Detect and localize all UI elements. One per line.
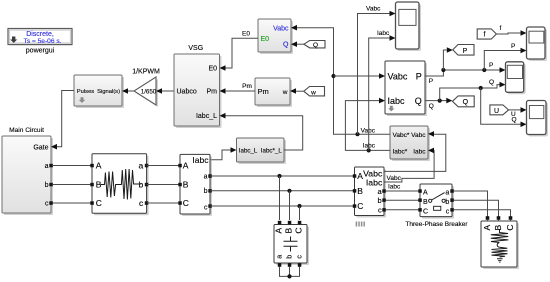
wire breaker b to load B (454, 200, 499, 217)
breaker switch icon (429, 199, 432, 202)
svg-text:Iabc: Iabc (377, 30, 390, 37)
svg-text:A: A (482, 224, 492, 230)
Iabc_L input arrow (231, 147, 237, 153)
svg-text:P: P (463, 48, 468, 55)
svg-text:Pm: Pm (242, 83, 252, 90)
svg-text:Q: Q (463, 99, 469, 106)
gain input arrow (156, 88, 162, 94)
junction Q at scope3 branch (479, 86, 483, 90)
svg-text:b: b (138, 180, 143, 190)
svg-text:f: f (500, 25, 502, 32)
wire meas2 b to breaker B (386, 199, 420, 201)
svg-text:Pm: Pm (258, 87, 269, 96)
scope1 P input arrow (521, 48, 527, 54)
svg-text:1/650: 1/650 (141, 88, 157, 95)
svg-text:C: C (294, 228, 304, 234)
wire E0 output to VSG E0 (226, 38, 259, 68)
svg-text:a: a (138, 161, 143, 171)
svg-text:c: c (139, 198, 144, 208)
svg-text:B: B (183, 180, 189, 190)
cap bottom terminal squares (278, 263, 282, 267)
svg-text:f: f (484, 32, 486, 39)
load inductor icon (497, 243, 499, 248)
junction phase c cap tap (297, 204, 301, 208)
svg-text:c: c (204, 205, 208, 212)
per-unit conversion block (390, 126, 430, 161)
junction Q (438, 99, 442, 103)
cap top terminal squares (278, 221, 282, 225)
svg-text:b: b (45, 182, 49, 189)
svg-text:C: C (505, 225, 515, 231)
svg-text:c: c (297, 255, 304, 259)
breaker port squares right (450, 189, 454, 193)
wire phase b bus (210, 190, 355, 192)
wire meas2 Iabc up to pu block (384, 150, 434, 182)
svg-text:Q: Q (429, 103, 434, 110)
wire meas2 a to breaker A (386, 190, 420, 192)
meas2 port squares left (353, 174, 357, 178)
wire main c to fault C (53, 202, 92, 204)
junction cap neutral (287, 274, 291, 278)
svg-text:C: C (357, 201, 363, 211)
svg-text:Gate: Gate (33, 145, 48, 152)
From tag w (304, 87, 325, 97)
svg-text:E0: E0 (261, 36, 270, 43)
svg-text:C: C (96, 198, 102, 208)
svg-text:Q: Q (512, 116, 517, 123)
port c square (49, 201, 53, 205)
svg-text:P: P (511, 43, 515, 50)
junction Iabc* at scope branch (367, 148, 371, 152)
scope3 Q input arrow (521, 122, 527, 128)
wire meas1 Iabc to Iabc_L (210, 150, 231, 160)
scope1 f input arrow (521, 30, 527, 36)
svg-text:A: A (423, 189, 428, 196)
svg-text:c: c (446, 208, 450, 215)
powergui block (8, 29, 73, 46)
E0 block Q input arrow (291, 41, 297, 47)
svg-text:C: C (423, 208, 428, 215)
wire phase a bus meas1 to meas2 (210, 175, 355, 177)
svg-text:VSG: VSG (188, 45, 203, 52)
VSG E0 input arrow (220, 65, 226, 71)
wire gain to Signal(s) (128, 90, 134, 92)
wire fault a to meas1 A (147, 165, 180, 167)
junction phase a cap tap (277, 174, 281, 178)
svg-text:Iabc: Iabc (363, 142, 376, 149)
svg-text:Ts = 5e-06 s.: Ts = 5e-06 s. (24, 38, 62, 45)
wire P branch to goto tag (443, 50, 446, 70)
svg-text:Q: Q (415, 96, 422, 106)
svg-text:b: b (378, 196, 382, 205)
svg-text:b: b (287, 255, 294, 259)
wire main a to fault A (53, 165, 92, 167)
pu block Iabc input arrow (428, 148, 434, 154)
VSG Pm input arrow (220, 88, 226, 94)
power block Vabc input arrow (379, 73, 385, 79)
svg-text:Iabc: Iabc (413, 148, 426, 155)
wire meas2 c to breaker C (386, 209, 420, 211)
From tag f (477, 29, 496, 39)
svg-text:Q: Q (489, 79, 494, 86)
Goto tag Q (452, 96, 474, 107)
Main Circuit block (2, 136, 53, 215)
load ground (497, 259, 503, 262)
svg-text:P: P (416, 71, 422, 81)
meas1 port squares left (178, 164, 182, 168)
load terminal squares (486, 216, 490, 220)
svg-text:a: a (445, 189, 449, 196)
svg-text:Vabc: Vabc (366, 6, 381, 13)
current measurement block meas1 (180, 154, 212, 216)
From tag U (490, 105, 509, 115)
svg-text:a: a (204, 174, 208, 181)
wire Iabc* branch to top scope (369, 38, 390, 150)
pu block Vabc input arrow (428, 131, 434, 137)
port Gate input arrow (51, 144, 57, 150)
svg-text:b: b (445, 199, 449, 206)
E0 block Vabc input arrow (291, 25, 297, 31)
scope1 (f,P) (527, 27, 548, 61)
wire cap neutral (280, 267, 300, 277)
fault waveform icon (101, 169, 142, 200)
fault port squares right (145, 164, 149, 168)
svg-text:P: P (429, 78, 433, 85)
junction P goto branch (441, 68, 445, 72)
svg-text:U: U (494, 108, 499, 115)
svg-text:w: w (310, 89, 316, 96)
Pm block (255, 78, 292, 107)
svg-text:Pm: Pm (207, 89, 218, 96)
wire breaker a to load A (454, 191, 488, 217)
port Signal(s) input arrow (122, 88, 128, 94)
svg-text:b: b (204, 188, 208, 195)
Goto tag P (453, 45, 474, 56)
wire P branch to scope1 (484, 51, 520, 71)
svg-text:B: B (493, 224, 503, 230)
svg-text:E0: E0 (242, 31, 250, 38)
wire cap tap a down (279, 176, 281, 220)
svg-text:Q: Q (313, 42, 318, 49)
capacitor icon (284, 237, 298, 252)
scope2 Q input arrow (500, 82, 506, 88)
junction phase b cap tap (287, 189, 291, 193)
V-I measurement block meas2 (355, 167, 387, 218)
wire f to scope1 (496, 33, 520, 34)
meas1 port squares right (208, 174, 212, 178)
svg-text:powergui: powergui (26, 48, 55, 55)
svg-text:Iabc: Iabc (388, 184, 401, 191)
svg-text:B: B (284, 227, 294, 233)
power measurement block (385, 61, 427, 116)
svg-text:Vabc: Vabc (361, 127, 376, 134)
wire Q output net (425, 100, 447, 102)
scope3 (U,Q) (527, 101, 549, 137)
load resistor icon (491, 230, 509, 243)
VSG block (174, 54, 222, 128)
E0 computation block (258, 19, 293, 54)
svg-text:A: A (357, 171, 363, 181)
scope3 U input arrow (521, 107, 527, 113)
Three-phase RLC load block (481, 221, 519, 269)
wire Iabc* net (345, 101, 390, 151)
svg-text:Iabc*_L: Iabc*_L (261, 148, 283, 155)
svg-text:C: C (183, 198, 189, 208)
svg-text:Vabc: Vabc (387, 175, 402, 182)
fault port squares left (90, 164, 94, 168)
top scope (396, 2, 422, 51)
meas2 sample icon (356, 222, 364, 227)
scope2 (P,Q) (506, 62, 526, 95)
wire meas2 Vabc up to pu block (384, 134, 446, 171)
svg-text:E0: E0 (208, 66, 217, 73)
svg-text:B: B (357, 186, 363, 196)
wire P output net (425, 70, 500, 76)
svg-text:c: c (45, 201, 49, 208)
Iabc_L filter block (237, 138, 287, 164)
breaker port squares left (418, 189, 422, 193)
PWM pulse generator block (74, 75, 124, 108)
wire Q branch down to scope3 (481, 88, 521, 124)
Q goto entry arrow (446, 98, 452, 104)
wire VSG Uabco to gain (162, 90, 174, 92)
wire Q tag to E0 block (297, 43, 305, 45)
svg-text:Iabc: Iabc (388, 96, 406, 106)
Pm block w input arrow (290, 88, 296, 94)
svg-text:Main Circuit: Main Circuit (9, 127, 44, 134)
wire Vabc* net (297, 28, 390, 135)
svg-text:Three-Phase Breaker: Three-Phase Breaker (405, 221, 468, 228)
wire phase c bus (210, 205, 355, 207)
junction Vabc* at scope branch (355, 132, 359, 136)
wire cap tap c down (299, 206, 301, 220)
three-phase fault block (92, 154, 149, 216)
wire w tag to Pm block (296, 90, 304, 92)
svg-text:Uabco: Uabco (177, 89, 197, 96)
svg-text:Vabc: Vabc (273, 25, 289, 32)
wire fault c to meas1 C (147, 202, 180, 204)
svg-text:Vabc: Vabc (411, 132, 426, 139)
svg-text:a: a (277, 255, 284, 259)
top scope input1 arrow (390, 11, 396, 17)
gain triangle 1/650 (134, 77, 158, 107)
wire Vabc* branch to power block (334, 75, 380, 77)
svg-text:1/KPWM: 1/KPWM (132, 69, 160, 76)
P goto entry arrow (447, 47, 453, 53)
scope2 P input arrow (500, 67, 506, 73)
wire fault b to meas1 B (147, 184, 180, 186)
svg-text:P: P (489, 62, 493, 69)
wire Iabc*_L to VSG Iabc_L (226, 116, 303, 150)
svg-text:B: B (423, 199, 428, 206)
junction Vabc* at power block branch (331, 74, 335, 78)
wire Q branch up (440, 85, 500, 101)
svg-text:Vabc*: Vabc* (393, 132, 410, 139)
svg-text:Iabc_L: Iabc_L (196, 113, 217, 120)
svg-text:Iabc_L: Iabc_L (239, 148, 258, 155)
meas2 port squares right (382, 189, 386, 193)
port b square (49, 183, 53, 187)
svg-text:a: a (45, 163, 49, 170)
top scope input2 arrow (390, 35, 396, 41)
capacitor bank block (274, 225, 309, 266)
wire Pulses output to Gate (57, 91, 74, 147)
port a square (49, 164, 53, 168)
svg-text:A: A (96, 161, 102, 171)
power block Iabc input arrow (379, 98, 385, 104)
svg-text:Iabc: Iabc (192, 155, 209, 165)
junction P scope1 branch (482, 68, 486, 72)
From tag Q (304, 41, 325, 49)
wire cap tap b down (289, 191, 291, 220)
wire breaker c to load C (454, 210, 511, 217)
wire Vabc* branch to top scope (358, 14, 390, 135)
svg-text:c: c (378, 206, 382, 215)
svg-text:w: w (282, 89, 288, 96)
svg-text:Vabc: Vabc (388, 71, 408, 81)
svg-text:Pulses: Pulses (77, 89, 95, 95)
wire U to scope3 (509, 109, 521, 111)
svg-text:Iabc*: Iabc* (393, 148, 408, 155)
svg-text:A: A (274, 227, 284, 233)
svg-text:Q: Q (283, 42, 289, 49)
VSG Iabc_L input arrow (220, 113, 226, 119)
Three-Phase Breaker block (420, 184, 454, 219)
svg-text:A: A (183, 161, 189, 171)
wire Pm output to VSG Pm (226, 90, 256, 92)
svg-text:Discrete,: Discrete, (26, 31, 54, 38)
svg-text:Signal(s): Signal(s) (97, 89, 120, 95)
wire main b to fault B (53, 184, 92, 186)
